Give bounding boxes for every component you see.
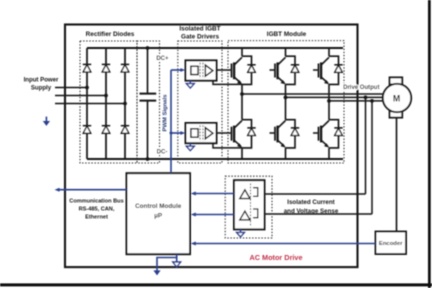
diode D5 xyxy=(102,126,110,134)
iso amplifier 1 xyxy=(240,188,258,199)
ground: sense isolated ground xyxy=(237,229,245,236)
IGBT Q5 (phase B low) xyxy=(275,94,299,159)
svg-text:PWM Signals: PWM Signals xyxy=(163,94,169,132)
control module box xyxy=(127,173,191,254)
svg-text:M: M xyxy=(393,93,400,103)
junction: phase A xyxy=(240,92,244,96)
gate driver U2 xyxy=(186,123,217,143)
svg-text:Rectifier Diodes: Rectifier Diodes xyxy=(86,31,135,38)
iso amplifier 2 xyxy=(240,209,258,220)
dashed box: DC link capacitor xyxy=(137,41,160,163)
wire: sense to controller lower with arrow xyxy=(195,214,234,216)
svg-text:and Voltage Sense: and Voltage Sense xyxy=(284,208,339,215)
svg-text:Drive Output: Drive Output xyxy=(343,85,379,91)
wire: current sense tap A xyxy=(365,97,367,194)
IGBT Q6 (phase C low) xyxy=(319,94,343,159)
wire: U2 emitter return xyxy=(213,143,242,148)
svg-text:Communication Bus: Communication Bus xyxy=(69,199,123,205)
wire: PWM to U1 with arrow xyxy=(171,69,181,71)
IGBT Q2 (phase B high) xyxy=(275,48,299,94)
wire: input phase line 1 xyxy=(55,87,87,89)
svg-text:Supply: Supply xyxy=(31,85,52,92)
wire: rectifier leg 2 xyxy=(105,48,107,159)
ground arrow: input supply earth xyxy=(45,117,47,122)
diode D2 xyxy=(102,64,110,72)
wire: motor shaft to encoder xyxy=(396,118,398,232)
IGBT Q1 (phase A high) xyxy=(232,48,256,94)
IGBT Q3 (phase C high) xyxy=(319,48,343,94)
junction: input line 2 / leg 2 xyxy=(104,94,108,98)
junction: input line 1 / leg 1 xyxy=(85,86,89,90)
junction: capacitor to DC+ xyxy=(146,46,150,50)
wire: rectifier leg 3 xyxy=(124,48,126,159)
wire: DC+ rail xyxy=(87,47,343,49)
capacitor C1 DC link xyxy=(147,48,149,93)
wire: current sense tap B xyxy=(371,101,373,214)
wire: Q3 gate stub xyxy=(313,69,319,71)
ground arrow: controller earth xyxy=(153,270,160,275)
wire: encoder feedback with arrow xyxy=(195,243,376,245)
svg-text:µP: µP xyxy=(154,212,162,219)
ground: controller signal ground xyxy=(173,262,181,267)
wire: DC- rail xyxy=(87,158,343,160)
wire: PWM bus vertical xyxy=(170,70,172,173)
dashed box: isolated current and voltage sense xyxy=(225,176,272,238)
svg-text:Isolated IGBT: Isolated IGBT xyxy=(179,26,220,33)
svg-text:Encoder: Encoder xyxy=(379,241,403,247)
diode D4 xyxy=(83,126,91,134)
svg-text:Isolated Current: Isolated Current xyxy=(287,199,334,206)
ground: U1 isolated ground xyxy=(186,81,194,88)
wire: Q2 gate stub xyxy=(270,69,276,71)
wire: U1 emitter return xyxy=(213,81,242,85)
wire: PWM to U2 with arrow xyxy=(171,132,181,134)
svg-text:RS-485, CAN,: RS-485, CAN, xyxy=(79,207,115,213)
junction: PWM branch xyxy=(170,132,173,135)
dashed box: IGBT module xyxy=(228,41,344,163)
ground: U2 isolated ground xyxy=(186,143,194,150)
svg-text:Gate Drivers: Gate Drivers xyxy=(181,34,219,41)
wire: rectifier leg 1 xyxy=(86,48,88,159)
wire: controller earth branch xyxy=(157,258,177,271)
junction: tap B on phase C xyxy=(370,99,374,103)
junction: capacitor to DC- xyxy=(146,157,150,161)
sense module box U3 xyxy=(234,180,265,229)
wire: input phase line 3 xyxy=(55,103,125,105)
diode D6 xyxy=(121,126,129,134)
dashed box: rectifier diodes xyxy=(80,41,137,163)
outer enclosure box xyxy=(65,25,358,268)
svg-text:DC-: DC- xyxy=(157,149,168,155)
wire: phase B output xyxy=(286,96,385,98)
encoder box xyxy=(376,232,407,255)
svg-text:IGBT Module: IGBT Module xyxy=(267,31,307,38)
wire: phase A output xyxy=(242,93,384,95)
wire: sense line lower xyxy=(265,213,373,215)
svg-text:Ethernet: Ethernet xyxy=(85,214,108,220)
wire: U1 gate output xyxy=(217,69,232,71)
wire: phase C output xyxy=(329,100,384,102)
svg-text:Control Module: Control Module xyxy=(135,203,182,210)
wire: communication bus with arrow xyxy=(58,189,127,191)
wire: sense to controller upper with arrow xyxy=(195,193,234,195)
motor M xyxy=(390,77,403,84)
diode D1 xyxy=(83,64,91,72)
junction: phase B xyxy=(284,96,288,100)
dashed box: isolated IGBT gate drivers xyxy=(178,41,222,163)
svg-text:AC Motor Drive: AC Motor Drive xyxy=(249,253,302,262)
diode D3 xyxy=(121,64,129,72)
IGBT Q4 (phase A low) xyxy=(232,94,256,159)
svg-text:DC+: DC+ xyxy=(156,56,169,62)
wire: U2 gate output xyxy=(217,132,232,134)
wire: controller ground stem xyxy=(176,254,178,262)
svg-text:Input Power: Input Power xyxy=(24,76,59,83)
wire: input phase line 2 xyxy=(55,95,106,97)
junction: tap A on phase B xyxy=(364,96,368,100)
junction: phase C xyxy=(327,99,331,103)
wire: Q6 gate stub xyxy=(313,132,319,134)
frame right border xyxy=(428,0,431,288)
gate driver U1 xyxy=(186,60,217,80)
junction: input line 3 / leg 3 xyxy=(123,102,127,106)
wire: sense line upper xyxy=(265,193,366,195)
frame bottom border xyxy=(0,283,432,286)
wire: Q5 gate stub xyxy=(270,132,276,134)
